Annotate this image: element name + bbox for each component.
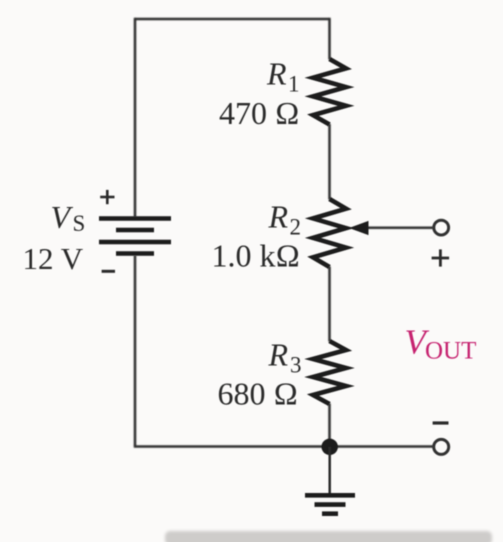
wire left lower [134,256,137,447]
label VS [51,199,86,236]
label R2 [268,199,302,240]
svg-text:R: R [266,56,287,92]
svg-text:2: 2 [290,215,302,240]
label R3 [268,337,302,378]
wire bottom [134,445,434,448]
wire right upper top to R1 [328,18,331,60]
svg-text:1: 1 [288,72,300,97]
svg-text:R: R [268,337,289,373]
terminal circle plus output [434,220,449,235]
wire junction to ground [328,447,331,494]
svg-text:470 Ω: 470 Ω [219,95,300,131]
battery VS plates [99,219,171,254]
label VOUT [405,323,477,365]
wire R3 to junction [328,404,331,447]
svg-text:3: 3 [290,353,302,378]
junction node [322,439,338,455]
wire top [135,18,330,21]
resistor R1 [313,59,346,125]
plus sign at output [432,249,450,266]
svg-text:S: S [73,211,86,236]
battery plus sign [100,190,114,204]
wire wiper to plus terminal [366,227,434,230]
minus sign at output [433,421,449,424]
wire R1 to R2 [328,124,331,200]
svg-text:1.0 kΩ: 1.0 kΩ [212,238,301,274]
wire R2 to R3 [328,267,331,342]
ground [305,495,355,513]
wiper arrow of R2 [349,221,369,235]
label R1 [266,56,300,97]
svg-text:R: R [268,199,289,235]
wire left upper [134,18,137,217]
terminal circle minus output [434,439,449,454]
svg-text:12 V: 12 V [23,241,84,276]
resistor R2 potentiometer [313,199,346,267]
gray band bottom [165,531,492,542]
resistor R3 [313,341,346,404]
battery minus sign [102,270,115,273]
svg-text:680 Ω: 680 Ω [218,376,299,412]
svg-text:OUT: OUT [425,337,476,364]
